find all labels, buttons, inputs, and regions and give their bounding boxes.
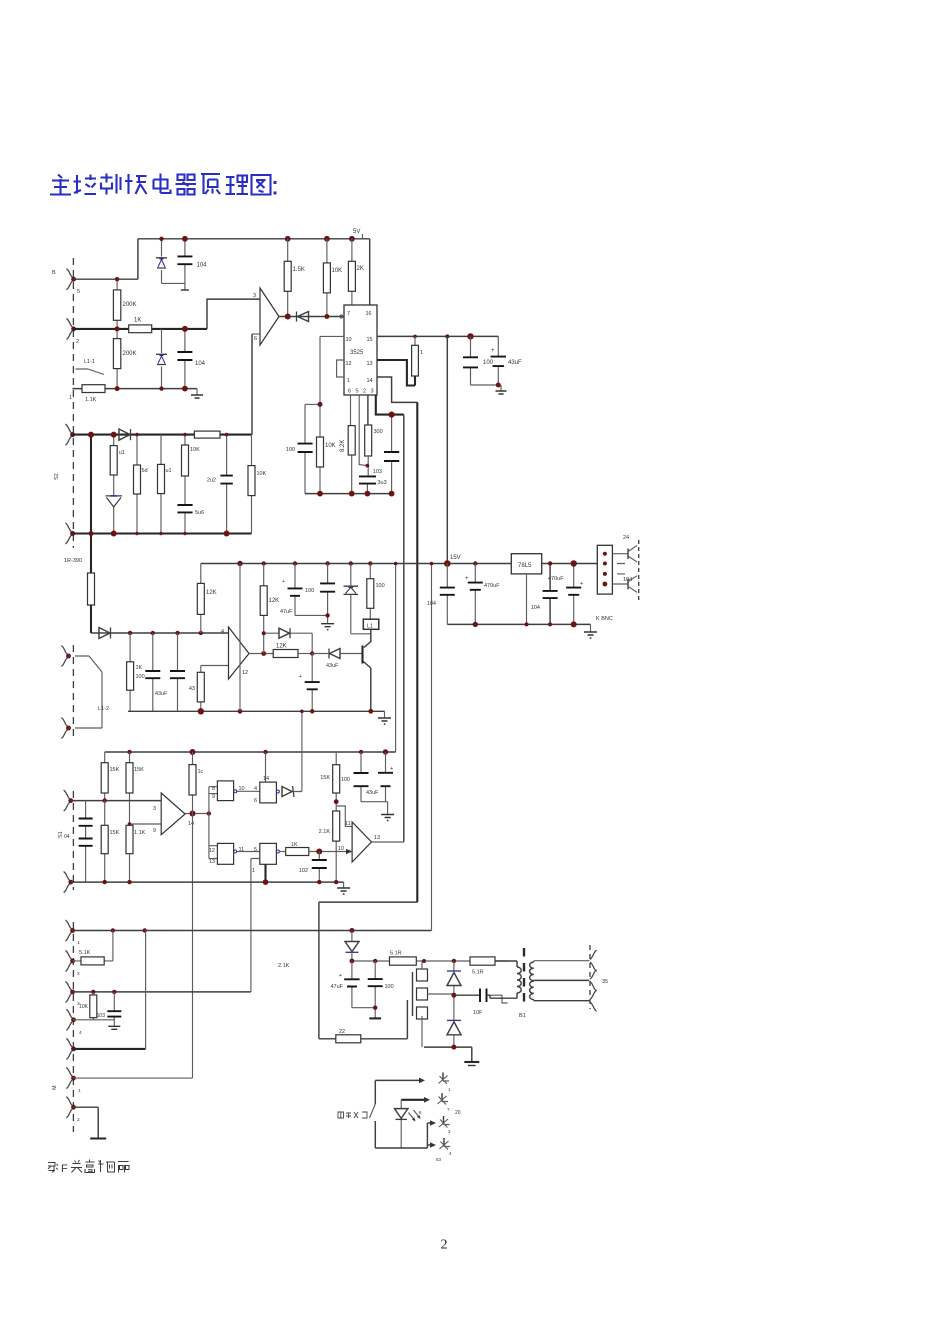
svg-text:11: 11 — [239, 847, 245, 853]
junction dots S2 — [88, 432, 94, 438]
svg-text:12: 12 — [209, 848, 215, 854]
FOOTER — [48, 1160, 448, 1253]
svg-text:8.2K: 8.2K — [340, 440, 346, 452]
title glyph 理 — [226, 176, 249, 195]
wire: arrow 1 — [375, 1079, 419, 1081]
svg-text:16: 16 — [366, 311, 372, 317]
wire: divider tap to minus input — [130, 823, 162, 825]
capacitor C3 100 — [470, 336, 472, 385]
resistor R8 (T1) — [414, 336, 416, 345]
MOSFET Q2 — [412, 972, 414, 1016]
ground at comparator bus — [343, 882, 345, 888]
wire B: pin1 row to 15V riser — [72, 930, 431, 932]
wire: long vertical bus from pin14 — [416, 402, 418, 902]
caption glyph 关 — [71, 1160, 82, 1173]
svg-text:u1: u1 — [119, 450, 125, 456]
capacitor C9 2u2 — [226, 435, 228, 534]
svg-text:104: 104 — [195, 361, 206, 367]
svg-text:15K: 15K — [110, 767, 120, 773]
svg-text:1K: 1K — [136, 665, 143, 671]
svg-text:1K: 1K — [291, 842, 298, 848]
pin X2 — [441, 1093, 443, 1102]
SEC8 power stage + transformer — [319, 902, 608, 1065]
capacitor C27 10F — [454, 994, 480, 996]
resistor R14 — [160, 435, 162, 534]
resistor R28 15K — [104, 801, 106, 883]
wire: U2 output — [249, 653, 273, 655]
svg-text:10K: 10K — [332, 268, 343, 274]
svg-text:14: 14 — [188, 821, 194, 827]
SEC9 opto / fan — [338, 1073, 461, 1163]
svg-text:04: 04 — [64, 834, 70, 840]
resistor R5 1.5K — [287, 239, 289, 317]
secondary pin 1 — [590, 950, 596, 971]
svg-text:43uF: 43uF — [155, 691, 168, 697]
svg-text:1c: 1c — [198, 769, 204, 775]
pin 1 — [65, 920, 71, 941]
wire: 15V to bottom connector (wire B riser) — [431, 564, 433, 931]
svg-text:100: 100 — [385, 984, 394, 990]
wire: main row into U2 — [91, 632, 229, 634]
zener D1a — [156, 258, 167, 268]
svg-text:100: 100 — [305, 588, 314, 594]
svg-text:13: 13 — [374, 835, 380, 841]
wire: U4 output down to pin6 of bottom connector — [192, 814, 194, 1079]
svg-text:5u6: 5u6 — [195, 510, 204, 516]
svg-text:14: 14 — [367, 378, 373, 384]
resistor R25 15K — [104, 752, 106, 801]
svg-text:15: 15 — [367, 337, 373, 343]
ground at C22/C23 — [387, 802, 389, 815]
resistor R9 8.2K — [348, 426, 355, 455]
title glyph 电 — [154, 174, 171, 194]
svg-text:6: 6 — [348, 389, 351, 395]
resistor R17 10K — [251, 435, 253, 534]
title glyph 制 — [101, 174, 121, 195]
transistor symbol T-a — [627, 549, 629, 560]
title glyph 控 — [74, 175, 97, 195]
capacitor C19/C20 pair — [85, 801, 87, 883]
capacitor C12 104 — [549, 564, 551, 625]
capacitor C5 3u3 — [366, 456, 369, 494]
svg-text:43uF: 43uF — [326, 663, 339, 669]
svg-text:103: 103 — [97, 1013, 106, 1019]
pin X3 — [443, 1116, 445, 1125]
svg-text:5: 5 — [356, 389, 359, 395]
resistor R3 1K — [129, 325, 152, 333]
diode D6 — [279, 628, 290, 638]
wire: IC pins 12-1 strap — [337, 360, 344, 377]
svg-text:1: 1 — [347, 378, 350, 384]
svg-text:L1-1: L1-1 — [84, 359, 95, 365]
wire: G4 output — [279, 851, 285, 853]
svg-text:4: 4 — [254, 786, 257, 792]
wire: arrow 4 — [427, 1144, 430, 1146]
resistor R29 1K pullup — [192, 752, 194, 814]
svg-text:5: 5 — [77, 289, 80, 295]
wire: D9 up to U2 bus — [294, 711, 302, 791]
secondary lead mid — [534, 979, 590, 982]
resistor R37 5.1R — [470, 957, 495, 965]
TITLE 主控制板电器原理图: (drawn as vector strokes, blue) — [50, 174, 277, 195]
capacitor C4 43uF — [471, 336, 499, 385]
svg-text:1: 1 — [252, 868, 255, 874]
resistor R10 300 — [367, 395, 369, 425]
connector S3 dashed — [72, 791, 74, 890]
resistor R2 200K — [116, 329, 118, 389]
svg-text:100: 100 — [341, 777, 350, 783]
resistor R22 12K — [273, 650, 298, 658]
wire: pin10 net row — [305, 403, 320, 405]
capacitor C23 43uF — [385, 752, 387, 802]
diode D10 — [351, 931, 353, 962]
zener D4 — [106, 495, 123, 497]
svg-text:K BNC: K BNC — [596, 616, 613, 622]
wire: S2 bottom row — [72, 532, 251, 534]
op-amp U2 — [229, 627, 250, 679]
svg-text:15K: 15K — [134, 767, 144, 773]
wire: pin6 row — [73, 1077, 192, 1079]
connector J4 box — [597, 545, 612, 594]
svg-text:100: 100 — [136, 674, 145, 680]
svg-text:13: 13 — [209, 859, 215, 865]
capacitor C26 100 — [374, 961, 376, 1018]
svg-text:47uF: 47uF — [280, 609, 293, 615]
resistor R20 1K — [129, 633, 131, 711]
transformer core dashed — [523, 948, 525, 1003]
svg-text:2.1K: 2.1K — [278, 963, 290, 969]
ground at U2 bus — [384, 711, 386, 718]
svg-text:104: 104 — [623, 577, 632, 583]
pin 5 of S1 — [66, 269, 72, 290]
secondary pin 2 — [590, 970, 596, 991]
svg-text:1: 1 — [77, 940, 80, 946]
wire: U1A output row — [279, 316, 344, 318]
relay coil L1 — [363, 619, 379, 629]
wire: fan loop left rail — [374, 1080, 376, 1148]
resistor R21 43 — [200, 666, 202, 712]
resistor R15 10K — [184, 435, 186, 505]
wire: U1A minus input to S2 net — [252, 333, 260, 335]
svg-text:12: 12 — [242, 670, 248, 676]
svg-text:F: F — [61, 1163, 68, 1175]
op-amp U5 (13) — [352, 822, 371, 862]
wire: S2 top row — [72, 434, 251, 436]
zener D1b column — [161, 329, 163, 389]
secondary connector dashed — [589, 945, 591, 1009]
caption glyph 高 — [85, 1160, 95, 1173]
switch L1-1 — [76, 369, 105, 375]
capacitor C16 electrolytic — [311, 654, 313, 712]
wire: x240 rail-to-bus — [239, 564, 241, 712]
diode D12 — [447, 1019, 461, 1021]
wire: IC pin10 to bottom net — [320, 336, 344, 404]
svg-text:15K: 15K — [320, 775, 330, 781]
svg-text:5d: 5d — [142, 468, 148, 474]
zener D8 column — [351, 564, 371, 634]
regulator U3 78L5 — [511, 554, 541, 574]
pin 2 of S1 — [66, 318, 72, 339]
title glyph 主 — [50, 175, 71, 195]
svg-text:3: 3 — [253, 293, 256, 299]
wire: U4 output — [185, 813, 209, 815]
LED arrows — [409, 1110, 420, 1120]
svg-text:12K: 12K — [269, 598, 280, 604]
svg-text:2.1K: 2.1K — [319, 829, 331, 835]
resistor R4 1.1K — [82, 385, 105, 393]
svg-text:B1: B1 — [519, 1013, 526, 1019]
wires: connector to output transistors — [612, 554, 628, 584]
svg-text:102: 102 — [299, 868, 308, 874]
wire: pin5 to rail — [73, 278, 137, 280]
svg-text:12K: 12K — [276, 644, 287, 650]
svg-text:7: 7 — [347, 311, 350, 317]
switch L1-2 — [75, 656, 102, 728]
svg-text:+: + — [339, 973, 342, 979]
wire: left feeder down to R 1R-390 — [90, 435, 92, 633]
wire A: gate drive loop — [319, 902, 417, 1039]
svg-text:10: 10 — [346, 337, 352, 343]
svg-text:S2: S2 — [54, 473, 60, 480]
title colon — [274, 181, 277, 184]
secondary lead top — [534, 961, 590, 962]
SEC7 bottom connector — [52, 920, 432, 1139]
svg-text:12: 12 — [346, 361, 352, 367]
wire: 15V feed from pin15 down — [446, 336, 448, 563]
pin 4 — [66, 1009, 72, 1030]
capacitor C8 5u6 — [184, 512, 186, 533]
svg-text:24: 24 — [623, 535, 629, 541]
svg-text:10F: 10F — [473, 1010, 483, 1016]
ground at C18 — [321, 624, 334, 630]
junction dots main row — [128, 631, 132, 635]
SEC1 top-left inputs, opamp U1A, IC 3525 — [52, 229, 522, 902]
svg-text:15V: 15V — [450, 555, 461, 561]
capacitor C24 103 — [113, 992, 115, 1020]
wire: bottom row of S1 net — [72, 388, 197, 390]
wire: G2 supply stub — [265, 752, 267, 782]
svg-text:10K: 10K — [79, 1004, 89, 1010]
svg-text:2: 2 — [77, 1117, 80, 1123]
wire: U5 output up the shutdown bus — [372, 841, 404, 843]
diode D7 — [328, 649, 330, 659]
svg-text:43uF: 43uF — [366, 790, 379, 796]
svg-text:5.1R: 5.1R — [472, 970, 484, 976]
svg-text:43: 43 — [189, 686, 195, 692]
svg-text:+: + — [282, 579, 285, 585]
wire: top 5V rail — [138, 239, 370, 305]
svg-text:103: 103 — [373, 469, 382, 475]
svg-text:5V: 5V — [353, 229, 360, 235]
svg-text:1.1K: 1.1K — [85, 397, 97, 403]
resistor R12 — [113, 435, 115, 496]
wire: feedback bridge — [264, 633, 313, 653]
wire: bottom bus of IC net — [305, 493, 392, 495]
pin X1 — [442, 1073, 444, 1082]
connector dashed line — [638, 540, 640, 603]
junction dots on 15V rail — [237, 561, 242, 566]
title glyph 原 — [201, 174, 220, 194]
capacitor C15 — [177, 633, 179, 711]
diode D11 — [453, 961, 455, 1020]
resistor R16 horizontal — [194, 431, 220, 438]
svg-text:100: 100 — [483, 360, 494, 366]
svg-text:1R-390: 1R-390 — [64, 558, 82, 564]
zener D1a column — [162, 239, 185, 284]
capacitor C6 103 — [391, 415, 393, 494]
svg-text:3: 3 — [371, 389, 374, 395]
resistor R33 5.1K — [72, 931, 113, 961]
transformer B1 secondary winding 1 — [530, 962, 534, 981]
svg-text:78L5: 78L5 — [518, 563, 532, 569]
SEC3 S2 input network — [54, 424, 267, 633]
gate G4 — [260, 843, 277, 864]
SEC5 opamp U2 driver — [61, 564, 391, 739]
secondary pin 3 — [590, 990, 596, 1011]
svg-text:10K: 10K — [325, 443, 336, 449]
wire: G4 bottom to gnd bus — [264, 864, 266, 882]
wire: riser to opamp + input — [207, 299, 260, 329]
switch K1 blade — [370, 1104, 376, 1118]
transistor Q1 — [363, 629, 371, 711]
IC U1 SG3525 — [344, 305, 377, 395]
svg-text:1.5K: 1.5K — [293, 267, 305, 273]
svg-text:35: 35 — [602, 979, 608, 985]
resistor R27 1.1K — [126, 825, 133, 853]
transformer B1 primary winding — [487, 961, 518, 998]
svg-text:L1-2: L1-2 — [98, 706, 109, 712]
secondary lead bottom — [534, 1000, 590, 1001]
SEC4 15V rail, regulator, output connector — [201, 535, 639, 931]
wire: regulator output — [542, 563, 598, 565]
diode D2 — [296, 312, 298, 322]
wire: regulator bottom bus — [447, 623, 590, 625]
wire: comparator bottom bus — [71, 881, 344, 883]
wire: IC pin15 supply row — [377, 335, 498, 337]
wire: S3 top pin row — [71, 800, 162, 802]
zener D1b — [156, 354, 167, 364]
junction dots S1 net — [159, 237, 163, 241]
SEC6 comparator + gates — [58, 710, 404, 1079]
capacitor C7 100 — [304, 404, 306, 493]
junction dots regulator out — [548, 561, 552, 565]
ground at power stage — [464, 1061, 479, 1063]
title glyph 板 — [125, 174, 147, 194]
svg-text:2: 2 — [441, 1238, 448, 1253]
ground at S1 net — [196, 389, 198, 395]
pin 5 — [66, 1038, 72, 1059]
wire: 15V to comparator bus — [395, 564, 397, 753]
svg-text:1: 1 — [420, 350, 423, 356]
wire: pin 5 stub — [359, 395, 367, 466]
svg-text:10K: 10K — [257, 471, 267, 477]
svg-text:4: 4 — [79, 1030, 82, 1036]
svg-text:4: 4 — [221, 629, 224, 635]
wire: regulator gnd pin — [526, 574, 528, 625]
wire: pin stub to R 8.2K — [351, 395, 352, 494]
caption glyph 丽 — [118, 1162, 129, 1173]
resistor R30 1K — [286, 848, 309, 856]
svg-text:3525: 3525 — [350, 350, 364, 356]
svg-text:1: 1 — [69, 395, 72, 401]
op-amp U4 (14) — [161, 793, 185, 835]
svg-text:2: 2 — [76, 339, 79, 345]
svg-text:5.1R: 5.1R — [390, 951, 402, 957]
pin top of S3 — [64, 790, 70, 811]
zener D9 — [282, 787, 292, 797]
junction dots U1A output — [285, 314, 291, 320]
svg-text:2K: 2K — [357, 266, 364, 272]
SEC2 IC bottom RC network — [286, 395, 404, 842]
resistor R36 5.1R — [390, 957, 417, 965]
svg-text:22: 22 — [339, 1029, 345, 1035]
wire: G4 strobe input down to pin3 row — [251, 859, 260, 992]
capacitor C10 104 — [446, 564, 448, 625]
svg-text:104: 104 — [427, 601, 436, 607]
wire: source/bottom node — [424, 1047, 472, 1062]
svg-text:+: + — [390, 766, 393, 772]
svg-text:200K: 200K — [123, 302, 137, 308]
divider column R31 15K / R32 2.1K — [335, 752, 337, 882]
resistor R1 200K — [116, 279, 118, 329]
wire: to U5 plus input — [309, 851, 352, 853]
svg-text:+: + — [299, 674, 302, 680]
svg-text:9: 9 — [153, 828, 156, 834]
capacitor C22 100 — [361, 752, 388, 802]
capacitor C25 47uF — [352, 961, 375, 1008]
U5 plus input arrowhead — [346, 849, 352, 854]
pin X4 — [443, 1138, 445, 1147]
svg-text:104: 104 — [531, 605, 540, 611]
svg-text:6: 6 — [254, 798, 257, 804]
wire: IC pin13 — [377, 360, 415, 386]
capacitor C13 470uF — [573, 564, 575, 625]
wire: G3 to G4 — [237, 851, 260, 853]
resistor R7 2K — [351, 239, 353, 305]
wire: 15V rail — [201, 563, 512, 565]
svg-text:2: 2 — [77, 971, 80, 977]
svg-text:u1: u1 — [166, 468, 172, 474]
svg-text:12K: 12K — [206, 590, 217, 596]
pin bottom of S3 — [64, 872, 70, 893]
wire: arrow 3 — [427, 1122, 430, 1124]
svg-text:5: 5 — [254, 847, 257, 853]
pin top of S2 — [65, 424, 71, 445]
svg-text:47uF: 47uF — [330, 984, 343, 990]
resistor R19 12K — [200, 564, 202, 634]
wire: G1 to G2 — [237, 790, 260, 792]
pin 2 — [65, 950, 71, 971]
wire: pin7 to ground — [73, 1107, 98, 1138]
wire: arrow 2 — [401, 1099, 424, 1101]
svg-text:3: 3 — [153, 806, 156, 812]
gate G3 — [217, 843, 233, 864]
svg-text:11: 11 — [345, 821, 351, 827]
connector M dashed — [72, 922, 74, 1132]
wire: pin3 row — [72, 991, 251, 993]
svg-text:+: + — [465, 576, 469, 582]
wire: U2 bottom bus — [128, 710, 385, 712]
svg-text:+: + — [491, 348, 495, 354]
pin 3 — [65, 981, 71, 1002]
svg-text:470uF: 470uF — [548, 576, 564, 582]
wire: comparator top bus — [105, 751, 396, 753]
svg-text:100: 100 — [376, 583, 385, 589]
svg-text:100: 100 — [286, 447, 295, 453]
capacitor C1 104 — [184, 239, 186, 290]
resistor R11 10K — [319, 404, 321, 493]
wire: pin4 row — [73, 1019, 114, 1021]
